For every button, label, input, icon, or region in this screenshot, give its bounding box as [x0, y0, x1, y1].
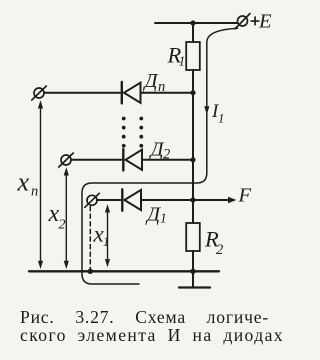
voltage arrow xn: [38, 100, 43, 269]
wire bus row3 to R2: [192, 200, 194, 223]
terminal input x1: [87, 195, 97, 205]
wire R1 to node n1: [192, 70, 194, 93]
wire diode Дп to bus: [141, 92, 194, 94]
caption line 1: [20, 307, 269, 327]
wire R2 to bottom rail: [192, 251, 194, 271]
label Дп: [143, 70, 166, 95]
wire diode Д2 to bus: [142, 159, 193, 161]
diode Дп: [121, 82, 123, 103]
terminal input x2: [61, 155, 71, 165]
svg-text:1: 1: [218, 111, 225, 126]
voltage arrow x1: [105, 204, 110, 267]
svg-text:1: 1: [103, 235, 109, 249]
wire current path I1 loop: [82, 28, 238, 284]
wire input x2 to diode Д2: [71, 159, 122, 161]
label Д1: [145, 204, 167, 226]
label x1: [93, 221, 110, 249]
resistor R2: [186, 223, 200, 251]
wire diode Д1 to bus: [141, 199, 193, 201]
wire bottom rail: [29, 270, 219, 272]
svg-text:1: 1: [179, 54, 186, 69]
node bottom bus: [190, 269, 195, 274]
svg-text:x: x: [17, 168, 30, 197]
svg-text:n: n: [31, 184, 38, 200]
label x2: [48, 201, 66, 233]
terminal +E: [238, 16, 248, 26]
label +E: [251, 10, 273, 32]
label R2: [204, 227, 223, 259]
svg-text:Д: Д: [145, 204, 161, 226]
diode Д1: [121, 189, 123, 210]
voltage arrow x2: [64, 167, 69, 269]
ground: [192, 271, 194, 287]
wire top rail: [155, 22, 237, 24]
label F: [238, 185, 252, 207]
svg-text:2: 2: [59, 218, 66, 233]
wire bus row1 to row2: [192, 93, 194, 160]
node dashed junction: [88, 269, 93, 274]
svg-text:1: 1: [160, 211, 167, 226]
wire +E to R1: [192, 23, 194, 42]
node row3 junction (output node): [190, 197, 195, 202]
label xn: [17, 168, 39, 200]
resistor R1: [186, 42, 200, 70]
svg-text:F: F: [238, 185, 252, 207]
node row1 junction: [190, 90, 195, 95]
node top junction: [190, 20, 195, 25]
caption line 2: [20, 325, 284, 345]
wire output F with arrow: [196, 199, 230, 201]
svg-text:2: 2: [216, 242, 223, 258]
ellipsis dots: [122, 117, 143, 148]
wire bus row2 to row3: [192, 160, 194, 200]
terminal input xn: [34, 88, 44, 98]
svg-text:E: E: [258, 10, 272, 32]
wire dashed drop from input x1 to bottom rail: [89, 207, 91, 270]
label R1: [167, 43, 186, 69]
svg-text:Д: Д: [143, 70, 159, 92]
arrowhead and label I1: [204, 106, 209, 114]
label Д2: [149, 139, 171, 163]
wire input xn to diode Дп: [44, 92, 120, 94]
node row2 junction: [190, 157, 195, 162]
diode Д2: [122, 149, 124, 170]
wire input x1 to diode Д1: [97, 199, 121, 201]
